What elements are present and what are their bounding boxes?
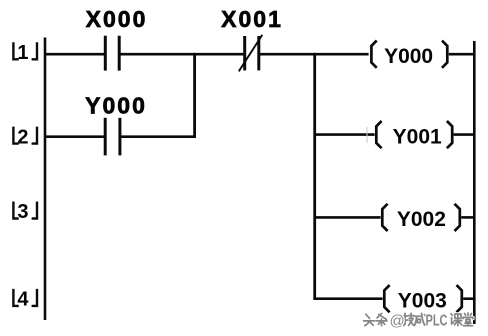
svg-text:2: 2: [17, 126, 28, 148]
svg-text:@: @: [390, 312, 405, 329]
svg-text:Y003: Y003: [398, 290, 447, 313]
coil Y000: [371, 41, 447, 68]
svg-text:Y000: Y000: [384, 45, 433, 68]
wire coil Y000 to right rail: [449, 53, 475, 56]
svg-text:Y000: Y000: [85, 93, 147, 119]
left power rail: [44, 38, 47, 321]
rung marker 2: [13, 127, 37, 144]
right output bus vertical: [313, 53, 316, 300]
wire bus to coil Y002: [315, 216, 381, 219]
svg-text:1: 1: [17, 42, 28, 64]
watermark 头条@技成PLC课堂: [364, 312, 473, 329]
right power rail: [473, 41, 476, 324]
svg-text:X000: X000: [86, 6, 148, 32]
wire X000 to X001: [121, 53, 244, 56]
wire coil Y002 to right rail: [461, 216, 474, 219]
wire coil Y003 to right rail: [463, 297, 474, 300]
wire bus to coil Y003: [315, 297, 383, 300]
svg-text:PLC: PLC: [426, 312, 448, 329]
svg-text:Y002: Y002: [397, 208, 446, 231]
wire Y000 contact to branch node: [121, 135, 196, 138]
svg-text:3: 3: [17, 201, 28, 223]
contact Y000: [105, 118, 120, 156]
rung marker 4: [13, 289, 37, 306]
svg-text:Y001: Y001: [393, 125, 442, 148]
coil Y001: [376, 121, 452, 148]
svg-text:4: 4: [17, 289, 29, 311]
coil Y003: [384, 285, 462, 312]
grid tick mark row2: [366, 127, 368, 143]
coil Y002: [382, 204, 460, 231]
contact X001 (NC): [245, 36, 259, 70]
wire rung2 left rail to Y000 contact: [45, 135, 104, 138]
wire coil Y001 to right rail: [454, 133, 475, 136]
NC slash of X001: [239, 35, 262, 72]
wire bus to coil Y001: [315, 133, 375, 136]
rung marker 3: [13, 202, 37, 219]
contact X000: [105, 36, 119, 71]
rung marker 1: [13, 42, 37, 59]
node branch vertical after X000: [193, 53, 196, 138]
wire rung1 left rail to X000: [45, 53, 104, 56]
svg-text:X001: X001: [221, 6, 283, 32]
wire X001 to coil Y000: [260, 53, 369, 56]
